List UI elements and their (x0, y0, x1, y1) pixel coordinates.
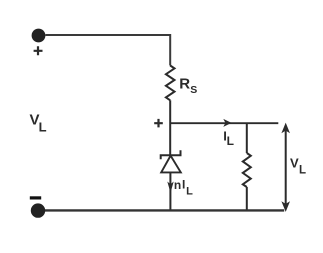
svg-text:L: L (227, 134, 234, 148)
svg-text:L: L (39, 119, 47, 134)
svg-text:L: L (299, 165, 306, 177)
svg-text:R: R (179, 75, 190, 92)
svg-text:V: V (290, 155, 299, 170)
svg-text:L: L (186, 185, 193, 197)
svg-text:S: S (190, 84, 197, 96)
svg-text:n: n (174, 178, 181, 192)
svg-text:I: I (182, 178, 185, 192)
